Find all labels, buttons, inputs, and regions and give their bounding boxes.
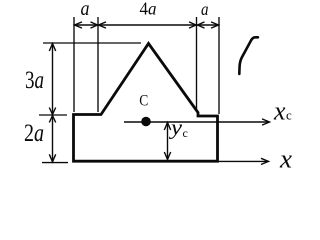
x axis line <box>217 160 267 162</box>
svg-text:3a: 3a <box>25 67 44 94</box>
arrowhead down tip of 2a <box>49 154 55 162</box>
middle tick at y=115 <box>39 114 67 116</box>
apex extension line at y=43 <box>43 42 141 44</box>
extension line right outer (x=219) <box>218 17 220 114</box>
shape outline: rectangle 6a x 2a with triangle 4a x 3a on top <box>74 44 218 162</box>
arrowhead left tip of a <box>75 22 83 28</box>
svg-text:c: c <box>183 126 188 140</box>
arrowhead up tip of y_c <box>164 123 170 131</box>
svg-text:x: x <box>279 144 293 173</box>
left dimension line 3a / 2a at x=52.5 <box>52 43 54 162</box>
extension line left outer (x=74) <box>73 17 75 112</box>
arrowhead right tip of 4a / left tip of right a <box>189 22 196 28</box>
arrowhead up tip of 3a <box>49 44 55 52</box>
arrowhead down tip of 3a (X crossing at y=115) <box>49 108 55 115</box>
svg-text:a: a <box>201 0 209 19</box>
svg-text:c: c <box>286 108 292 123</box>
extension line left inner (x=98) <box>97 17 99 112</box>
centroid axis x_c <box>124 121 268 123</box>
arrowhead down tip of y_c <box>164 152 170 160</box>
top dimension line a / 4a / a at y=25 <box>74 24 219 26</box>
arrowhead of x axis <box>261 158 269 164</box>
svg-text:a: a <box>81 0 90 20</box>
handwritten pen stroke (top right) <box>239 37 258 74</box>
svg-text:C: C <box>139 93 148 110</box>
y_c dimension arrow <box>167 123 169 160</box>
svg-text:x: x <box>273 97 286 126</box>
arrowhead right tip of a / left tip of 4a <box>91 22 98 28</box>
centroid dot C <box>141 117 151 127</box>
bottom tick at y=162 <box>42 162 68 164</box>
arrowhead of x_c axis <box>262 119 270 125</box>
svg-text:4a: 4a <box>140 0 157 19</box>
extension line right inner (x=197) <box>196 17 198 111</box>
svg-text:y: y <box>169 115 183 140</box>
arrowhead right tip of right a <box>211 22 219 28</box>
svg-text:2a: 2a <box>24 120 44 147</box>
arrowhead up tip of 2a (X crossing at y=115) <box>49 116 55 123</box>
